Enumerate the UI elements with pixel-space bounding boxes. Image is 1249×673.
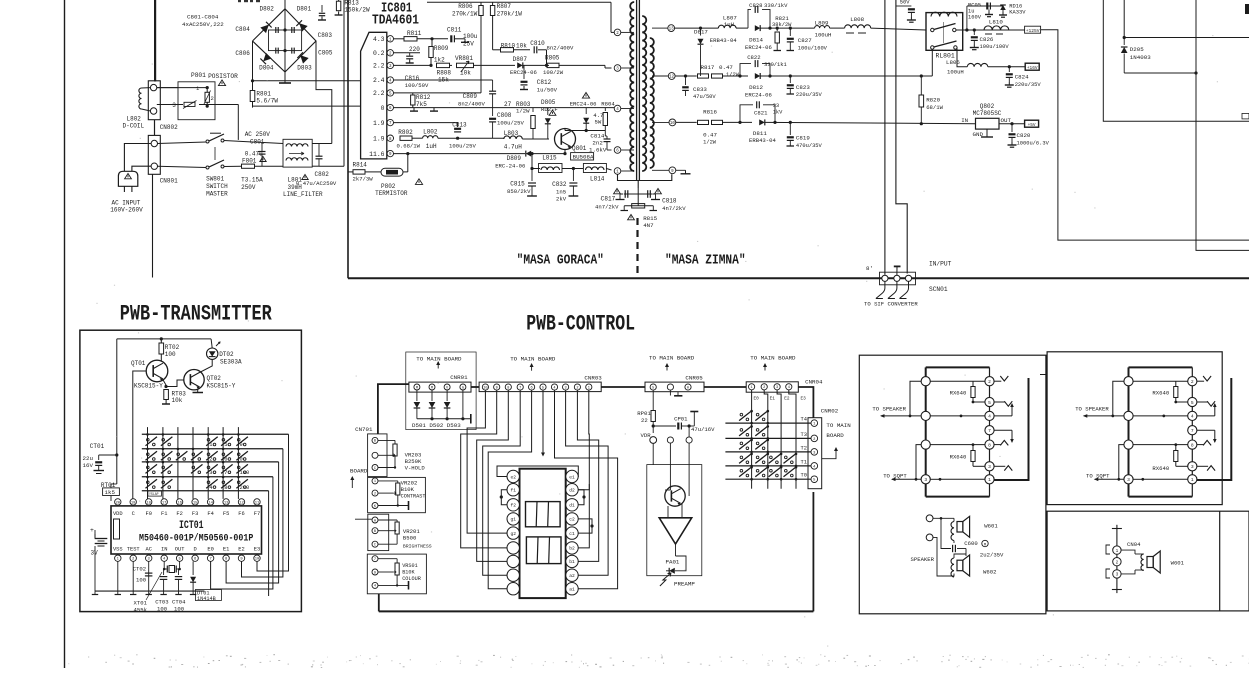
wire matrix top riser bbox=[269, 427, 294, 601]
svg-text:5.6/7W: 5.6/7W bbox=[256, 98, 278, 105]
resistor R809 1k2 bbox=[431, 39, 433, 46]
svg-text:1N4003: 1N4003 bbox=[1130, 54, 1151, 61]
wire D205 to frame C bbox=[1124, 72, 1196, 74]
svg-text:TO MAIN BOARD: TO MAIN BOARD bbox=[416, 355, 462, 362]
svg-text:2: 2 bbox=[1116, 560, 1119, 565]
wire relay contact2 to row B bbox=[931, 49, 933, 76]
svg-text:VRS01: VRS01 bbox=[402, 563, 418, 569]
diode DT01 1N4148 bbox=[192, 561, 194, 575]
svg-text:g2: g2 bbox=[510, 531, 516, 537]
wire pin1 rail bbox=[394, 38, 404, 40]
wire CNR01 to CNR03 bbox=[471, 386, 479, 388]
potentiometer VR201 B500 BRIGHTNESS bbox=[378, 519, 397, 521]
svg-text:C811: C811 bbox=[447, 27, 462, 34]
amplifier triangle bbox=[659, 518, 692, 544]
wire: page left border bbox=[64, 0, 66, 668]
svg-text:D501 D502 D503: D501 D502 D503 bbox=[412, 422, 461, 429]
wire top pins bbox=[930, 380, 985, 382]
resistor R811 220 bbox=[404, 37, 417, 41]
svg-text:a1: a1 bbox=[569, 587, 575, 593]
svg-text:ERC24-06: ERC24-06 bbox=[745, 91, 772, 98]
wire row C bbox=[676, 121, 697, 123]
wire to VR201 pin A bbox=[355, 518, 372, 520]
wire 0V rail left segment bbox=[253, 105, 361, 107]
svg-text:ERC24-06: ERC24-06 bbox=[745, 44, 772, 51]
svg-text:3: 3 bbox=[988, 464, 991, 470]
svg-text:18: 18 bbox=[146, 501, 151, 505]
svg-text:330/1kV: 330/1kV bbox=[764, 2, 788, 9]
svg-text:2n2: 2n2 bbox=[592, 140, 603, 147]
wire vertical bus B bbox=[896, 0, 907, 274]
control bottom border bbox=[379, 610, 814, 612]
svg-text:220u/35V: 220u/35V bbox=[796, 92, 823, 98]
svg-text:D809: D809 bbox=[507, 155, 522, 162]
transformer pin 13 bbox=[652, 27, 668, 29]
connector CN801 bbox=[148, 135, 160, 174]
circled pins below bbox=[667, 437, 673, 443]
wire QT01 base bus bbox=[133, 371, 147, 499]
svg-text:11: 11 bbox=[255, 501, 260, 505]
diode D803 bbox=[297, 52, 308, 63]
svg-text:T0: T0 bbox=[801, 473, 807, 479]
svg-text:4xAC250V,222: 4xAC250V,222 bbox=[182, 21, 224, 28]
svg-text:CNR04: CNR04 bbox=[805, 379, 823, 386]
svg-text:7: 7 bbox=[519, 386, 521, 390]
svg-text:1: 1 bbox=[988, 477, 991, 483]
svg-text:C814: C814 bbox=[590, 133, 604, 140]
svg-text:10: 10 bbox=[255, 558, 260, 562]
svg-text:CN802: CN802 bbox=[160, 124, 178, 131]
resistor R820 68/1W bbox=[920, 76, 922, 95]
matrix rows bbox=[725, 422, 811, 424]
wire Q801 collector node bbox=[564, 129, 566, 131]
svg-text:8: 8 bbox=[507, 386, 509, 390]
transformer secondary winding A bbox=[642, 16, 646, 171]
wire amp out bbox=[675, 544, 677, 556]
resistor R817 0.47 1/2W bbox=[698, 74, 709, 78]
svg-text:d2: d2 bbox=[569, 488, 575, 494]
diode D817 ERB43-04 bbox=[699, 27, 702, 30]
svg-text:T3.15A: T3.15A bbox=[241, 177, 263, 184]
svg-text:10k: 10k bbox=[460, 70, 471, 77]
inductor L807 1uH bbox=[718, 25, 736, 28]
capacitor C819 470u/35V bbox=[789, 122, 791, 135]
svg-text:POSISTOR: POSISTOR bbox=[208, 73, 238, 80]
svg-text:100uH: 100uH bbox=[947, 69, 964, 76]
svg-text:M: M bbox=[431, 386, 433, 390]
svg-text:C808: C808 bbox=[497, 112, 512, 119]
wire switch to filter upper bbox=[224, 141, 283, 144]
bridge inner capacitor network bbox=[269, 30, 302, 51]
svg-text:ERC24-06: ERC24-06 bbox=[570, 101, 597, 108]
wire CN801 to switch bbox=[158, 142, 207, 144]
resistor R815 4N7 bbox=[637, 194, 639, 206]
svg-text:R802: R802 bbox=[398, 129, 413, 136]
wire below CN801 bbox=[152, 174, 154, 277]
matrix columns bbox=[751, 390, 753, 489]
svg-text:850/2kV: 850/2kV bbox=[507, 188, 531, 195]
diode D809 ERC-24-06 bbox=[526, 151, 531, 157]
wire pin8 rail bbox=[393, 137, 396, 139]
wire pin5 rail bbox=[394, 92, 482, 94]
switch SW801 lower contact bbox=[206, 166, 209, 169]
svg-text:R812: R812 bbox=[416, 94, 431, 101]
transistor QT01 KSC815-Y bbox=[146, 360, 168, 382]
svg-text:100/50V: 100/50V bbox=[405, 82, 429, 89]
resistor RP01 22 bbox=[652, 391, 654, 411]
capacitor CP01 47u/16V bbox=[653, 425, 676, 427]
transmitter outer box bbox=[80, 330, 302, 611]
display left pin circles bbox=[507, 470, 519, 482]
wire CN802-CN801 link bbox=[154, 120, 156, 136]
svg-text:7: 7 bbox=[374, 558, 376, 562]
speaker panel bottom bar bbox=[926, 496, 990, 498]
svg-text:LINE_FILTER: LINE_FILTER bbox=[283, 191, 323, 198]
svg-text:RX640: RX640 bbox=[1152, 390, 1169, 397]
svg-text:D: D bbox=[193, 547, 196, 553]
potentiometer VR801 10k bbox=[457, 63, 474, 67]
svg-text:XT01: XT01 bbox=[134, 600, 148, 607]
svg-text:1/2W: 1/2W bbox=[726, 72, 740, 78]
svg-text:TO SPEAKER: TO SPEAKER bbox=[872, 405, 906, 412]
svg-text:100: 100 bbox=[174, 606, 185, 613]
svg-text:e2: e2 bbox=[510, 474, 516, 480]
left bus circles bbox=[1124, 377, 1133, 386]
wire pin9 rail bbox=[394, 153, 526, 155]
svg-text:CNR01: CNR01 bbox=[450, 374, 468, 381]
svg-text:b2: b2 bbox=[569, 546, 575, 552]
speaker panel 2 box bbox=[1047, 352, 1222, 505]
CN04 brackets bbox=[1106, 545, 1110, 554]
svg-text:IN: IN bbox=[961, 117, 968, 124]
wire bottom pin1 bbox=[930, 478, 985, 480]
wire right frame C bbox=[1196, 0, 1249, 250]
svg-text:R811: R811 bbox=[407, 30, 422, 37]
svg-text:ERB43-04: ERB43-04 bbox=[749, 137, 776, 144]
svg-text:F3: F3 bbox=[192, 511, 198, 517]
svg-text:IN/PUT: IN/PUT bbox=[929, 261, 952, 268]
svg-text:P802: P802 bbox=[381, 183, 396, 190]
wire down to L815 bbox=[532, 154, 540, 169]
wire CNR05 to CNR04 bbox=[704, 386, 746, 388]
svg-text:TO SIF CONVERTER: TO SIF CONVERTER bbox=[864, 301, 918, 308]
capacitor C815 850/2kV bbox=[531, 169, 533, 182]
svg-text:L809: L809 bbox=[815, 20, 829, 27]
svg-text:100uH: 100uH bbox=[815, 31, 832, 38]
svg-text:1: 1 bbox=[751, 386, 753, 390]
speaker panel top bar bbox=[1129, 366, 1193, 368]
posistor P801 box bbox=[178, 82, 215, 120]
potentiometer VR202 B10K CONTRAST bbox=[378, 480, 398, 482]
7-segment digit 2 bbox=[526, 537, 561, 564]
svg-text:C832: C832 bbox=[552, 181, 567, 188]
wire CNR02 bottom down bbox=[813, 489, 815, 492]
IC ICT01 box bbox=[111, 506, 262, 554]
jack bracket wires bbox=[1197, 380, 1204, 382]
svg-text:1: 1 bbox=[209, 442, 212, 448]
svg-text:CT02: CT02 bbox=[133, 566, 146, 573]
svg-text:0.47: 0.47 bbox=[719, 64, 733, 71]
svg-text:CN801: CN801 bbox=[160, 178, 178, 185]
svg-text:C820: C820 bbox=[1017, 132, 1031, 139]
svg-text:1: 1 bbox=[1191, 477, 1194, 483]
cut text at top edge bbox=[238, 0, 260, 2]
svg-text:C816: C816 bbox=[405, 75, 420, 82]
svg-text:27: 27 bbox=[504, 101, 512, 108]
T-bar below CNR05 bbox=[669, 391, 671, 396]
svg-text:R820: R820 bbox=[926, 97, 940, 104]
right column circles bbox=[1191, 367, 1193, 496]
transformer pin 3 bbox=[621, 67, 634, 69]
capacitor C827 100u/160V bbox=[789, 28, 791, 36]
transformer pin 12 bbox=[652, 75, 669, 77]
speaker panel bus left bbox=[925, 367, 927, 496]
svg-text:BOARD: BOARD bbox=[826, 432, 844, 439]
svg-text:0.68/1W: 0.68/1W bbox=[397, 142, 421, 149]
svg-text:5: 5 bbox=[988, 400, 991, 406]
ground at bridge bottom bbox=[284, 72, 286, 83]
wire left jogs bbox=[1113, 381, 1124, 416]
svg-text:D205: D205 bbox=[1130, 46, 1144, 53]
net label +12V partial at edge bbox=[1242, 113, 1249, 119]
far right bracket bbox=[994, 378, 1028, 480]
svg-text:C805: C805 bbox=[318, 50, 333, 57]
svg-text:6: 6 bbox=[531, 386, 533, 390]
svg-text:C819: C819 bbox=[796, 135, 810, 142]
svg-text:C812: C812 bbox=[537, 79, 552, 86]
wire mid connections bbox=[1133, 415, 1188, 417]
svg-text:SW801: SW801 bbox=[206, 176, 224, 183]
svg-text:5: 5 bbox=[542, 386, 544, 390]
svg-text:220: 220 bbox=[409, 46, 420, 53]
svg-text:8: 8 bbox=[1191, 442, 1194, 448]
svg-text:R816: R816 bbox=[703, 109, 717, 116]
svg-text:E0: E0 bbox=[207, 547, 213, 553]
diode D808 ERC24-06 bbox=[585, 108, 587, 114]
wire heavy feed into CN802 from top bbox=[154, 0, 156, 82]
svg-text:TO SPEAKER: TO SPEAKER bbox=[1075, 405, 1109, 412]
svg-text:4n7/2kV: 4n7/2kV bbox=[595, 204, 619, 211]
wire Q802 out to +5V bbox=[999, 123, 1025, 125]
inductor L808 bbox=[845, 25, 871, 28]
svg-text:PWB-CONTROL: PWB-CONTROL bbox=[526, 311, 635, 336]
wire pin2 feed from top rail bbox=[610, 2, 612, 32]
capacitor C814 2n2 1.6kV bbox=[604, 138, 611, 140]
capacitor C818 4n7/2kV bbox=[647, 190, 649, 198]
svg-text:5W: 5W bbox=[595, 119, 602, 126]
svg-text:+5V: +5V bbox=[1028, 123, 1036, 128]
wire AC plug to CN801 bbox=[124, 144, 151, 172]
svg-text:11.6: 11.6 bbox=[369, 151, 385, 158]
svg-text:100u/100V: 100u/100V bbox=[980, 44, 1010, 50]
svg-text:12: 12 bbox=[669, 76, 675, 80]
resistor R816 0.47 1/2W bbox=[698, 120, 709, 124]
svg-text:1k2: 1k2 bbox=[434, 57, 445, 64]
wire left jogs bbox=[910, 381, 921, 416]
net label +5V bbox=[1025, 120, 1039, 127]
svg-text:+125V: +125V bbox=[1026, 28, 1040, 34]
svg-text:SCN01: SCN01 bbox=[929, 286, 948, 293]
svg-text:12: 12 bbox=[239, 501, 244, 505]
svg-text:"MASA GORACA": "MASA GORACA" bbox=[517, 253, 604, 268]
wire pin3-1 bottom link bbox=[930, 478, 940, 480]
relay coil bbox=[931, 12, 957, 16]
svg-text:C826: C826 bbox=[980, 36, 994, 43]
svg-text:AC INPUT: AC INPUT bbox=[112, 200, 141, 207]
svg-text:RX640: RX640 bbox=[1152, 465, 1169, 472]
svg-text:2: 2 bbox=[988, 379, 991, 385]
svg-text:C810: C810 bbox=[530, 40, 545, 47]
svg-text:CT01: CT01 bbox=[90, 443, 105, 450]
wire VRS01 to bottom border bbox=[378, 594, 380, 612]
svg-text:KSC815-Y: KSC815-Y bbox=[207, 383, 236, 390]
inductor L810 bbox=[984, 26, 1009, 30]
capacitor C833 47u/50V bbox=[684, 74, 687, 77]
op-amp U IC801 TDA4601 body bbox=[361, 32, 387, 159]
svg-text:TEST: TEST bbox=[127, 547, 141, 553]
svg-text:R810: R810 bbox=[501, 43, 516, 50]
transformer pin 6 bbox=[621, 149, 634, 151]
svg-text:2: 2 bbox=[1191, 379, 1194, 385]
wire battery plus to VDD bbox=[95, 505, 118, 530]
diode D805 RD2-F zener bbox=[547, 108, 549, 115]
svg-text:13: 13 bbox=[669, 28, 675, 32]
svg-text:7: 7 bbox=[209, 558, 211, 562]
svg-text:D814: D814 bbox=[749, 37, 763, 44]
svg-text:7: 7 bbox=[988, 428, 991, 434]
wire 0V rail right segment bbox=[394, 107, 618, 109]
svg-text:c2: c2 bbox=[569, 517, 575, 523]
svg-text:L802: L802 bbox=[423, 128, 438, 135]
wire pin4 rail bbox=[394, 79, 493, 81]
inductor L803 4.7uH bbox=[504, 136, 523, 139]
wire CNR04 to CNR02 riser bbox=[798, 387, 813, 418]
svg-text:100: 100 bbox=[165, 351, 176, 358]
svg-text:e1: e1 bbox=[569, 474, 575, 480]
svg-text:RT02: RT02 bbox=[165, 344, 180, 351]
svg-text:RX640: RX640 bbox=[950, 390, 967, 397]
svg-text:C823: C823 bbox=[796, 84, 810, 91]
box VRS01 bbox=[367, 554, 426, 594]
wire top pins bbox=[1133, 380, 1188, 382]
resistor RT03 10k bbox=[164, 390, 169, 400]
svg-text:9: 9 bbox=[374, 571, 376, 575]
transistor Q801 BU508A bbox=[555, 129, 576, 150]
capacitor C816 100/50V bbox=[409, 53, 411, 56]
svg-text:T3: T3 bbox=[801, 432, 807, 438]
capacitor C813 100u/25V bbox=[454, 128, 461, 130]
line filter L801 box bbox=[283, 139, 312, 167]
resistor R801 5.6/7W bbox=[250, 91, 255, 102]
svg-text:T4: T4 bbox=[801, 417, 807, 423]
svg-text:BU508A: BU508A bbox=[573, 154, 594, 161]
svg-text:W601: W601 bbox=[1171, 560, 1185, 567]
crystal XT01 455k bbox=[163, 561, 165, 569]
wires display inner frame bbox=[497, 466, 543, 477]
svg-text:160V-260V: 160V-260V bbox=[110, 207, 143, 214]
svg-text:C600: C600 bbox=[964, 540, 978, 547]
fuse F801 bbox=[242, 164, 255, 168]
wires CNR03 right pins to display bbox=[555, 390, 618, 589]
wire row A bbox=[675, 27, 719, 29]
svg-text:1000u/6.3V: 1000u/6.3V bbox=[1017, 140, 1050, 146]
svg-text:14: 14 bbox=[208, 501, 213, 505]
arrow CNR05 bbox=[666, 364, 668, 371]
diode D205 1N4003 bbox=[1123, 38, 1125, 46]
svg-text:f1: f1 bbox=[510, 488, 516, 494]
svg-text:5: 5 bbox=[224, 442, 227, 448]
svg-text:R804: R804 bbox=[601, 101, 615, 108]
svg-text:TERMISTOR: TERMISTOR bbox=[375, 190, 408, 197]
right column circles bbox=[989, 367, 991, 496]
svg-text:DT02: DT02 bbox=[219, 351, 234, 358]
svg-text:7: 7 bbox=[224, 470, 227, 476]
resistor R808 15k bbox=[437, 63, 450, 67]
svg-text:CN701: CN701 bbox=[355, 426, 373, 433]
svg-text:3: 3 bbox=[209, 470, 212, 476]
svg-text:5: 5 bbox=[1191, 400, 1194, 406]
transformer pin 10 bbox=[652, 121, 669, 123]
svg-text:2: 2 bbox=[209, 457, 212, 463]
capacitor C820 1000u/6.3V bbox=[1011, 124, 1013, 132]
wire filter out bbox=[312, 143, 332, 145]
svg-text:P801: P801 bbox=[191, 72, 206, 79]
svg-text:R801: R801 bbox=[256, 90, 271, 97]
connector CNR05 strip bbox=[645, 382, 704, 392]
transformer pin 1 bbox=[621, 170, 634, 172]
svg-text:PWB-TRANSMITTER: PWB-TRANSMITTER bbox=[120, 301, 272, 326]
svg-text:4: 4 bbox=[788, 386, 790, 390]
resistor R803 27 1/2W bbox=[532, 108, 534, 112]
svg-text:d1: d1 bbox=[569, 503, 575, 509]
wire: PSU box left edge bbox=[347, 0, 349, 278]
svg-text:R809: R809 bbox=[434, 45, 449, 52]
svg-text:D-COIL: D-COIL bbox=[123, 123, 145, 130]
resistor RX640 upper bbox=[1174, 387, 1178, 398]
wire CNR03 pin5 to display top bbox=[542, 390, 544, 455]
svg-text:10: 10 bbox=[483, 386, 487, 390]
resistor RX640 lower bbox=[1174, 451, 1178, 462]
capacitor 50V at top bbox=[896, 5, 912, 7]
posistor resistor inside P801 bbox=[205, 92, 209, 102]
potentiometer VRS01 B10K COLOUR bbox=[378, 558, 397, 560]
diode D802 bbox=[260, 22, 271, 33]
wire pin9 to ground bbox=[676, 169, 686, 171]
svg-text:10k: 10k bbox=[516, 43, 527, 50]
key matrix switches bbox=[147, 438, 150, 441]
svg-text:COLOUR: COLOUR bbox=[402, 576, 421, 582]
SCN01 tails to SIF converter bbox=[876, 281, 885, 298]
resistor R802 0.68/1W bbox=[400, 136, 412, 140]
svg-text:3: 3 bbox=[1127, 477, 1130, 483]
svg-text:4: 4 bbox=[553, 386, 555, 390]
resistor RX640 lower bbox=[971, 451, 975, 462]
svg-text:1N414B: 1N414B bbox=[197, 596, 216, 602]
svg-text:g1: g1 bbox=[510, 517, 516, 523]
svg-text:68/1W: 68/1W bbox=[926, 104, 943, 111]
transformer primary winding bbox=[630, 2, 634, 171]
wire Q801 emitter to rail bbox=[564, 150, 566, 154]
wire CN802 pin to P801 bbox=[157, 104, 183, 106]
svg-text:1n5: 1n5 bbox=[556, 189, 566, 196]
capacitor C809 8n2/400V bbox=[492, 80, 494, 91]
connector CNR01 strip bbox=[409, 382, 471, 392]
svg-text:0: 0 bbox=[381, 105, 385, 112]
svg-text:1-0: 1-0 bbox=[240, 470, 250, 476]
wire pin4 end bbox=[612, 108, 615, 110]
transistor QT02 KSC815-Y bbox=[184, 370, 204, 390]
wire row A to relay bbox=[871, 28, 926, 30]
